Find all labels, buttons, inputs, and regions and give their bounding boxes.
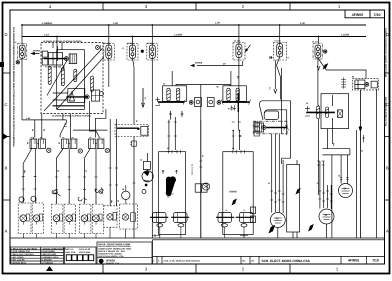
tick marks on box2 feed wires — [168, 122, 241, 136]
wire x332 long down — [331, 118, 333, 144]
relay C junction circled dot — [85, 95, 89, 99]
relay C body — [68, 89, 85, 103]
relay row pins top — [31, 136, 101, 138]
relay R1 body — [355, 80, 365, 89]
svg-text:31: 31 — [85, 170, 88, 172]
switch box 7 side rect — [113, 213, 116, 221]
cluster A cigar 2 — [176, 88, 179, 101]
stamp box — [65, 247, 97, 264]
lamp gauge wire — [147, 153, 149, 171]
wire 15 arrow down — [274, 60, 277, 93]
cluster B cigar 2 — [236, 88, 239, 101]
svg-text:TV.REC 1020 340: TV.REC 1020 340 — [45, 66, 62, 69]
ticks above tall box1 — [168, 151, 177, 153]
lamp above box6 — [122, 185, 130, 204]
svg-text:49: 49 — [232, 147, 234, 150]
svg-text:49: 49 — [58, 142, 61, 144]
fuse F1 body — [106, 45, 112, 59]
svg-text:L.30: L.30 — [300, 22, 305, 25]
svg-text:4 INT. FREIO: 4 INT. FREIO — [11, 256, 24, 259]
switch circle 1 — [20, 215, 27, 222]
svg-text:F2 10A: F2 10A — [128, 42, 135, 45]
arrow wire down x143 — [142, 88, 145, 107]
zone tick bottom 3/4 — [102, 264, 104, 274]
svg-text:A: A — [5, 229, 8, 234]
relay row unit 1 body — [30, 139, 51, 153]
fuse F5 down wire jog — [277, 57, 281, 100]
motor M3 bundle ticks — [270, 191, 284, 202]
cluster B vertical thin continuation — [237, 112, 239, 130]
cluster B cigar — [227, 88, 230, 101]
ring above box1 b — [31, 196, 36, 201]
svg-text:58: 58 — [31, 129, 34, 131]
relay C circled E — [100, 92, 104, 96]
wire stub into inner rect — [61, 43, 63, 50]
svg-text:4FW05: 4FW05 — [352, 13, 364, 17]
cluster A junction dot — [189, 101, 193, 105]
zone tick right C/B — [385, 136, 390, 138]
wires into tall box2 top — [233, 130, 239, 150]
wire relay1 out b — [34, 149, 36, 204]
arrow 4FW06 with tail to F4 wire — [197, 61, 243, 66]
relay C pointer triangle — [70, 92, 75, 102]
wire x33 stub — [33, 137, 35, 139]
fuse K1 body — [19, 45, 25, 58]
dash cluster dot — [137, 128, 139, 130]
motor M2 circle — [319, 209, 334, 224]
switch box 7-8 drop wires — [110, 203, 126, 238]
lamp gauge box above — [143, 162, 150, 170]
fuse F1 down wire — [108, 59, 110, 88]
svg-text:D: D — [4, 32, 7, 37]
switch dashed box 8 — [120, 204, 138, 229]
svg-text:31: 31 — [268, 182, 270, 185]
svg-text:L.30: L.30 — [113, 22, 118, 25]
fuse F3 element — [151, 48, 154, 51]
svg-text:31: 31 — [201, 155, 204, 157]
zone tick left D/C — [3, 72, 11, 74]
wire relay C down — [89, 101, 91, 111]
wire relay1 out jog — [23, 149, 32, 204]
horizontal link y235 right — [240, 234, 248, 237]
black arrow blob 2 — [308, 224, 314, 232]
ticks on x200 — [199, 161, 202, 167]
svg-text:AT.4FW04 AT.4FW04 AT.4FW04 AT.: AT.4FW04 AT.4FW04 AT.4FW04 AT.4FW04 — [52, 114, 92, 117]
svg-text:7: 7 — [36, 200, 37, 203]
svg-text:58: 58 — [122, 188, 124, 191]
dashed group box upper-left — [41, 43, 103, 114]
svg-text:86: 86 — [352, 76, 354, 79]
svg-text:8: 8 — [112, 219, 113, 222]
svg-text:FICA VEDADA A REPRODUCAO DESTE: FICA VEDADA A REPRODUCAO DESTE DESENHO S… — [12, 27, 15, 147]
relay bold bar — [266, 127, 287, 129]
svg-text:30: 30 — [306, 102, 308, 105]
switch circle 8 — [122, 214, 128, 220]
centering mark bottom — [46, 266, 53, 271]
fuse F3 down wire — [151, 59, 153, 173]
wire x62 down to horizontal — [62, 114, 64, 120]
lamp gauge ring bottom — [142, 190, 146, 194]
connector cigar 2 — [61, 68, 64, 86]
arrow down right — [359, 90, 362, 238]
tall box 1 — [159, 152, 186, 235]
black arrow blob 3 — [296, 188, 301, 195]
fuse K1 dash-dot box — [17, 44, 27, 60]
svg-text:15.: 15. — [243, 209, 246, 212]
wire x281 down — [281, 68, 283, 134]
horizontal link y235 left — [152, 234, 160, 237]
tick marks right margin wires — [362, 135, 365, 142]
fuse F4 dashed box — [233, 43, 245, 61]
horizontal wire L54 — [22, 119, 66, 121]
right relay cluster bold bar — [306, 111, 335, 113]
relay row unit 3 body — [89, 139, 110, 153]
fuse F5 drop wire — [279, 25, 281, 44]
wire step below mid units — [200, 85, 202, 120]
wire jog left to relay1 — [34, 120, 36, 138]
fuse F2 dashed box — [127, 44, 138, 61]
svg-text:AT.4FW04 AT.4FW04 AT.4FW04 AT.: AT.4FW04 AT.4FW04 AT.4FW04 AT.4FW04 — [43, 40, 83, 43]
switch circle 7 — [107, 214, 113, 220]
tall box 1 lever ticks — [167, 192, 174, 197]
wire bus2 into dashed box — [56, 37, 58, 53]
connector stack right of cluster B — [254, 122, 260, 136]
arrow down on F6 wire — [317, 66, 320, 70]
relay C side box — [91, 90, 99, 101]
coil box rounded mid — [264, 111, 278, 119]
right cluster cigar 1 — [317, 106, 320, 119]
tall box 1 arrows above relays — [162, 170, 178, 174]
connector ticks row1 — [22, 168, 118, 177]
relay pair straddle box b — [202, 184, 208, 192]
cluster B pins below — [230, 105, 236, 110]
wire x318 long down — [318, 119, 320, 195]
bus wire L.15 second — [22, 36, 366, 38]
motor M3 circle — [270, 213, 285, 228]
tick on x134 — [133, 182, 136, 184]
svg-text:DES. CSA: DES. CSA — [66, 251, 76, 254]
horizontal wire y131 to relay3 — [90, 111, 100, 138]
svg-text:31: 31 — [361, 150, 364, 152]
svg-text:4FW05: 4FW05 — [348, 259, 359, 263]
tall box 1 lever blob — [166, 176, 176, 196]
motor M3 bundle wires — [272, 160, 283, 213]
mid unit 2 — [207, 98, 214, 107]
fuse F3 dashed box — [147, 44, 158, 61]
svg-text:C: C — [4, 102, 7, 107]
svg-text:49: 49 — [26, 142, 29, 144]
motor M2 bundle ticks — [319, 191, 333, 201]
svg-text:50: 50 — [239, 135, 242, 137]
staircase vertical x341 — [340, 155, 342, 180]
black arrow blob 1 — [269, 225, 276, 234]
svg-text:7/10: 7/10 — [374, 13, 381, 17]
connector cigar 3 — [74, 69, 77, 81]
fuse F2 drop wire — [132, 37, 134, 46]
micro label sprinkles — [14, 40, 364, 222]
revision strip box — [153, 240, 385, 264]
svg-text:15: 15 — [135, 120, 138, 122]
svg-text:49: 49 — [167, 147, 169, 150]
fuse F4 down wire — [238, 58, 240, 102]
switch circle 3 — [53, 215, 60, 222]
wire corner right diagonal to relay2 — [60, 120, 66, 138]
relay A junction circled dot — [64, 57, 68, 61]
ground circle small 1 — [54, 190, 58, 194]
svg-text:30: 30 — [163, 83, 165, 86]
wire K1 down — [21, 58, 23, 120]
relay pair straddle box a — [195, 184, 201, 192]
fuse F4 drop wire — [238, 25, 240, 44]
zone tick top 1/2 — [289, 3, 291, 11]
wire x116 down — [116, 119, 118, 206]
zone tick bottom 2/3 — [195, 264, 197, 274]
switch box down wires — [23, 234, 96, 239]
right cluster plus marks — [305, 106, 310, 116]
notes divider — [97, 257, 152, 259]
wire x134 to cluster — [133, 122, 135, 125]
revision strip text — [153, 259, 255, 262]
diagonal wire second — [57, 57, 104, 110]
relay C feed wires — [53, 93, 68, 100]
motor M1 circle — [339, 184, 353, 198]
switch box bottom pins — [23, 222, 96, 225]
switch circle 6 — [93, 215, 100, 222]
right cluster group box — [321, 94, 349, 129]
dash-dot relay box — [253, 121, 287, 134]
switch circle 2 — [33, 215, 40, 222]
tall box 1 relay a — [153, 213, 167, 228]
bold bars through box1 relays — [150, 216, 189, 218]
wire below tall box2 — [224, 227, 244, 238]
svg-text:15.: 15. — [225, 209, 228, 212]
wire relay2 out b — [68, 149, 70, 205]
svg-text:53: 53 — [338, 175, 340, 178]
svg-text:VISTO ENG: VISTO ENG — [79, 251, 91, 254]
motor M2 bundle wires — [320, 185, 331, 209]
bus wire L.30 top — [22, 24, 366, 26]
fuse F6 element — [316, 48, 319, 51]
svg-text:B: B — [5, 166, 8, 171]
svg-text:8: 8 — [101, 219, 102, 222]
zone tick left B/A — [3, 199, 11, 201]
motor M2 down wire — [326, 224, 328, 238]
tall box 2 top pins — [233, 150, 245, 153]
zone tick right D/C — [385, 72, 390, 74]
ring above box1 a — [19, 197, 24, 202]
svg-text:5 INT. LUZ RE: 5 INT. LUZ RE — [11, 259, 25, 262]
fuse F3 tail into gauge — [151, 172, 153, 238]
svg-text:KM-M: KM-M — [230, 191, 237, 194]
switch dashed box 6 — [92, 204, 104, 233]
mid vertical bold x200 — [200, 120, 202, 238]
svg-text:58: 58 — [43, 129, 46, 131]
circled dot relay — [262, 126, 266, 130]
tall box 2 relay a — [218, 213, 232, 228]
svg-text:1 RELE DA LUZ DE FREIO: 1 RELE DA LUZ DE FREIO — [11, 247, 37, 250]
fuse F4 body — [236, 44, 242, 58]
legend table text — [11, 247, 66, 264]
svg-text:10: 10 — [140, 159, 142, 162]
fuse K1 element — [21, 48, 24, 51]
fuse F6 dash-dot box — [313, 44, 323, 60]
wire loop upper to right rail — [259, 101, 290, 120]
flag above box3 — [52, 190, 60, 196]
fuse F6 side circled dot — [324, 50, 327, 53]
svg-text:L.GERAL: L.GERAL — [42, 22, 53, 25]
cluster B box — [223, 86, 247, 102]
wire x318 down to cluster — [318, 105, 320, 106]
arrow 4FW06 head — [190, 64, 195, 67]
svg-text:6 CHAVE SETA: 6 CHAVE SETA — [11, 261, 26, 264]
junction dots above box2 — [232, 130, 240, 132]
fuse F4 lever arrowhead — [245, 48, 249, 52]
flag above box5 — [95, 188, 103, 194]
svg-text:86: 86 — [217, 86, 219, 89]
diagonal wire third — [47, 60, 68, 96]
fuse F3 side dot — [141, 50, 143, 52]
wire loop between clusters — [176, 85, 230, 86]
fuse F1 element — [107, 48, 110, 51]
svg-text:F3 15A: F3 15A — [148, 42, 155, 45]
relay bar end marks — [284, 125, 289, 130]
pin ticks near relay2 feed — [64, 124, 67, 127]
wire x70 down — [70, 114, 72, 140]
cluster A pins below — [169, 111, 183, 120]
switch dashed box 4 — [64, 204, 76, 233]
svg-text:L.50: L.50 — [215, 22, 220, 25]
circled-x symbol right of dashed box — [96, 45, 101, 50]
wire x109 down — [109, 119, 111, 206]
schematic bottom boundary wire — [10, 237, 385, 239]
bold bars through box2 relays — [216, 216, 254, 218]
svg-text:3 RELE AUX. PARTIDA: 3 RELE AUX. PARTIDA — [11, 253, 34, 256]
dash cluster rect — [141, 126, 148, 135]
centering mark left — [0, 62, 8, 140]
wire F6 diagonal to right rail — [318, 58, 366, 79]
wire bundle into M3 from top — [272, 134, 280, 185]
right cluster cigar 2 — [326, 107, 329, 118]
notes stamp mark — [99, 258, 120, 265]
svg-text:K1: K1 — [14, 41, 16, 44]
zone tick top 2/3 — [195, 3, 197, 11]
sheet number box top right — [345, 10, 385, 18]
small rect pair left of motors — [251, 207, 256, 223]
relay R1 dashed box — [352, 79, 378, 90]
lamp bracket left of box2 — [202, 183, 209, 190]
switch box 8 side rect — [131, 213, 136, 222]
relay C bold bar — [66, 96, 87, 98]
relay A pin below — [62, 65, 64, 71]
connector cigar 4 — [91, 76, 94, 91]
switch dashed box 3 — [51, 204, 63, 233]
relay R1 pin hatches — [341, 78, 346, 89]
node circled dot below K1 — [16, 61, 19, 64]
right cluster box X — [337, 110, 342, 118]
fuse F5 dashed box — [274, 43, 287, 61]
svg-text:B: B — [386, 166, 389, 171]
tall box right-mid — [287, 165, 300, 233]
svg-text:ESQUEMA ELETRICO CSA: ESQUEMA ELETRICO CSA — [384, 97, 387, 127]
tall box 2 arrow blob — [232, 198, 237, 205]
relay A body — [49, 53, 63, 66]
fuse F6 drop wire — [318, 37, 320, 44]
flag above box4 — [78, 197, 87, 201]
svg-text:11 BUZINA: 11 BUZINA — [41, 259, 52, 262]
connector cigar 1 — [48, 66, 51, 84]
svg-text:7/10: 7/10 — [372, 259, 379, 263]
svg-text:F1 10A: F1 10A — [104, 42, 111, 45]
switch circle 4 — [66, 215, 73, 222]
bold wire under relay C — [53, 105, 85, 107]
switch dashed box 5 — [79, 204, 91, 233]
left stacked box lower — [41, 58, 48, 65]
switch dashed box 1 — [18, 203, 31, 234]
dash cluster bold line — [117, 127, 139, 129]
zone tick top 3/4 — [102, 3, 104, 11]
fuse F4 element — [237, 47, 240, 50]
relay R1 circle dot — [365, 83, 369, 87]
svg-text:SCH. ELECT. MODS CHINA CSA: SCH. ELECT. MODS CHINA CSA — [262, 259, 311, 263]
left stacked box upper — [41, 51, 48, 57]
svg-text:2 FUS. GERAL 30A: 2 FUS. GERAL 30A — [11, 250, 30, 253]
step wire from group mid — [282, 101, 291, 164]
wire below tall box1 — [160, 227, 181, 238]
cluster B bar end marks — [221, 100, 250, 105]
svg-text:49: 49 — [117, 200, 120, 202]
svg-text:8.5 8.5: 8.5 8.5 — [228, 108, 235, 111]
relay A bold feed — [44, 58, 66, 60]
wire F6 straight down — [317, 58, 320, 106]
connector pair on x134 wire — [130, 141, 136, 146]
svg-text:7 CHAVE COMUTADORA: 7 CHAVE COMUTADORA — [41, 247, 66, 250]
tall box 2 — [223, 152, 253, 235]
zone tick bottom 1/2 — [289, 264, 291, 274]
staircase vertical x347 — [346, 155, 348, 180]
svg-text:F5 10A: F5 10A — [275, 40, 282, 43]
tall box 1 top pins — [169, 150, 181, 153]
arrow to 4FW04 left — [35, 53, 40, 55]
tall box 1 relay b — [174, 213, 188, 228]
svg-text:5: 5 — [96, 201, 97, 204]
switch circle 5 — [81, 215, 88, 222]
fuse F5 body — [277, 44, 283, 58]
svg-text:4FW05: 4FW05 — [106, 258, 115, 262]
svg-text:F6 15A: F6 15A — [312, 41, 319, 44]
dash cluster mid-left box — [115, 125, 149, 137]
motor M1 wires bundle — [341, 180, 347, 184]
inner solid rect in dashed box — [57, 50, 85, 110]
wire x376 down — [375, 89, 377, 238]
staircase from dashed box to relay3 — [95, 109, 106, 138]
cluster A side box — [195, 98, 202, 107]
vertical wire x297 — [293, 160, 297, 238]
svg-text:30 15 54 49a: 30 15 54 49a — [191, 164, 194, 176]
svg-text:F4 10A: F4 10A — [234, 40, 241, 43]
fuse F3 body — [149, 45, 155, 59]
horizontal wire y130 — [73, 129, 108, 131]
fuse F5 pin marks — [269, 56, 273, 59]
svg-text:31: 31 — [317, 182, 319, 185]
cluster B bold bar — [222, 101, 249, 103]
connector ticks row2 — [22, 185, 118, 190]
ticks on x318 wire upper — [317, 161, 324, 165]
cluster A cigar 1 — [167, 88, 170, 101]
fuse F5 element — [278, 46, 281, 49]
wire loop lower to right rail — [265, 110, 287, 135]
svg-text:A: A — [386, 229, 389, 234]
wire x41 down to relay row — [41, 114, 43, 140]
